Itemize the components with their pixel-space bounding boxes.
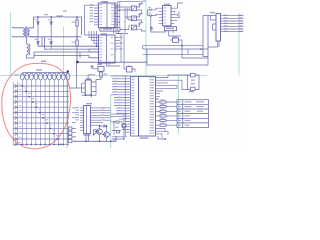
keyboard top rail junction xyxy=(67,71,69,73)
small box left wire xyxy=(91,66,99,69)
opto bus top rail xyxy=(118,2,142,4)
header connector J1 box xyxy=(216,14,221,42)
opto B1 wires xyxy=(136,4,143,14)
U4 bottom wire xyxy=(82,94,96,96)
keyboard label top-left2 xyxy=(20,74,23,75)
small box below IC1b xyxy=(98,66,104,71)
guide line horizontal middle xyxy=(0,75,207,77)
diode D3 label xyxy=(35,39,38,40)
junction dots mid right xyxy=(181,45,182,46)
Q area wires xyxy=(100,124,111,141)
opto B3 wires xyxy=(136,23,146,31)
wire relay to right vertical xyxy=(182,49,208,58)
fuse label xyxy=(63,11,67,12)
crystal Y1 loop xyxy=(188,73,200,90)
resistor network labels xyxy=(161,99,165,123)
resistor R5 xyxy=(94,130,97,133)
AC terminal marks xyxy=(12,27,14,37)
guide line vertical keyboard right xyxy=(66,70,68,148)
mid right vertical stubs xyxy=(143,46,208,63)
resistor network rows to table xyxy=(156,102,178,125)
small box above MCU xyxy=(127,67,133,73)
wire net D xyxy=(34,56,99,58)
diode D2 label xyxy=(48,19,51,20)
keyboard row caps xyxy=(15,84,16,146)
long verticals to bottom right xyxy=(203,16,208,59)
GND label left xyxy=(41,61,46,63)
diode D3 xyxy=(37,37,39,46)
junction dots Q area xyxy=(99,125,100,126)
IC2 left pins xyxy=(159,8,163,23)
opto B3 label xyxy=(138,23,142,24)
diode D1 xyxy=(37,17,39,37)
Q3 emitter resistor xyxy=(116,131,119,133)
guide line vertical bottom right xyxy=(177,76,179,133)
fuse L1 xyxy=(57,16,63,17)
below IC2 label2 xyxy=(172,37,176,38)
transistor Q1 xyxy=(95,129,102,135)
IC2 U3 box xyxy=(163,6,172,26)
wires below regulator xyxy=(120,25,129,30)
Ra label xyxy=(72,22,76,23)
cap C4 label xyxy=(148,13,151,14)
wire net A xyxy=(38,37,99,46)
J1 bottom wires xyxy=(208,41,219,47)
guide line vertical center xyxy=(145,1,147,76)
header label top right xyxy=(210,12,215,14)
wires caps to IC2 xyxy=(148,8,159,15)
opto bus verticals xyxy=(116,2,131,34)
keyboard label top xyxy=(36,69,42,70)
IC1b divider xyxy=(106,35,108,63)
diode D2 xyxy=(50,17,52,37)
opto B2 wires xyxy=(136,14,143,24)
Q3 labels xyxy=(119,119,123,120)
MCU U6 body xyxy=(139,77,156,137)
U5 right pin labels xyxy=(101,107,105,120)
keyboard diagonal tiny labels xyxy=(25,88,59,137)
table cell texts xyxy=(178,101,204,125)
U6 right pin wires upper xyxy=(156,78,171,100)
transistor Q2 xyxy=(102,132,109,138)
IC U5 box xyxy=(84,106,91,134)
box below IC2 label xyxy=(166,28,174,29)
cap C4 xyxy=(148,14,155,16)
IC1 left pins xyxy=(94,5,99,25)
IC1b label xyxy=(101,33,107,34)
GND label mid xyxy=(97,64,102,66)
keyboard label top-left xyxy=(15,74,19,75)
cap C3 xyxy=(148,9,155,11)
keyboard grid horizontals xyxy=(13,86,69,144)
transformer T1 xyxy=(13,17,39,38)
IC1 U1 box xyxy=(99,3,115,28)
IC2 right wires to connectors xyxy=(175,3,184,18)
resistor network boxes xyxy=(160,101,166,126)
IC1b right pin labels xyxy=(119,37,123,50)
IC1 left bus vertical xyxy=(85,5,99,35)
J1 right pin wires xyxy=(221,16,244,32)
J2 wires xyxy=(72,129,76,142)
IC1b junction dot xyxy=(96,46,97,47)
IC1b right pins xyxy=(115,38,120,50)
J1 wire top xyxy=(208,16,216,31)
R4 top link xyxy=(100,70,102,73)
wire from keypad to amp xyxy=(70,77,82,88)
U6 pin number texts inside strip xyxy=(132,77,135,134)
resistor R4 vertical xyxy=(100,72,103,77)
transistor Q3 xyxy=(122,124,126,128)
crystal labels xyxy=(191,80,195,81)
divider resistor Rb xyxy=(76,40,78,46)
lower right junctions xyxy=(165,138,166,139)
small box above MCU wires xyxy=(124,65,135,72)
choke coil L2 xyxy=(27,38,35,58)
IC1 label xyxy=(101,1,108,2)
U5 divider xyxy=(86,106,88,134)
relay K1 coil symbol xyxy=(170,40,182,46)
wire drop to gnd node xyxy=(77,52,80,62)
U5 label top xyxy=(86,103,92,104)
verticals from regulator area down xyxy=(116,34,124,70)
U6 pin name texts inside body right xyxy=(150,77,155,134)
keyboard row labels xyxy=(19,84,21,143)
top rail label xyxy=(44,14,48,15)
U4 top wire xyxy=(88,75,101,82)
U4 left pins xyxy=(82,83,86,93)
MCU U6 left wire stubs upper xyxy=(111,76,130,132)
bottom rail wire xyxy=(30,36,82,38)
opto B3 symbol xyxy=(132,26,135,29)
U5 right pins xyxy=(90,108,110,125)
Q3 base resistor xyxy=(116,121,119,123)
U6 bottom label xyxy=(140,137,149,139)
opto box B1 xyxy=(131,6,136,11)
Q3 junction dots xyxy=(113,121,114,122)
keyboard grid verticals xyxy=(13,80,68,146)
wire net C xyxy=(34,52,99,58)
wire net B xyxy=(45,37,99,49)
bottom bus wire xyxy=(74,136,116,141)
Rb label xyxy=(72,42,76,43)
diode D4 xyxy=(50,37,52,49)
box below IC2 xyxy=(165,27,177,31)
IC1 left pin labels xyxy=(90,4,94,22)
table block xyxy=(177,100,209,128)
IC2 right pins xyxy=(171,8,178,23)
left column caps of U5 xyxy=(72,108,76,123)
IC1 divider xyxy=(106,3,108,28)
Q3 wires xyxy=(111,114,127,141)
relay label xyxy=(173,36,178,37)
opto box B3 xyxy=(131,25,136,30)
cross wires mid right xyxy=(143,46,208,55)
MCU U6 inner strip xyxy=(131,77,139,137)
wires below IC2 box xyxy=(169,31,181,36)
opto box B2 xyxy=(131,16,136,21)
guide line vertical left xyxy=(10,12,12,76)
table title label xyxy=(189,91,194,93)
IC1b U1b box xyxy=(99,35,116,63)
crystal wires xyxy=(163,75,188,90)
IC2 left pin labels xyxy=(163,7,166,23)
junction top rail at divider xyxy=(76,16,77,17)
U4 right vertical xyxy=(91,82,96,98)
top rail wire xyxy=(34,17,82,35)
junction bottom rail at divider xyxy=(76,36,77,37)
U5 bottom wires xyxy=(86,134,89,142)
connector J2 small xyxy=(68,127,72,143)
J1 pin labels xyxy=(224,15,243,32)
IC1 below verticals xyxy=(114,28,119,34)
U5 left pins xyxy=(80,108,84,130)
divider wire xyxy=(76,17,78,62)
U4 right pins xyxy=(91,82,96,92)
IC1 inner pin number specks xyxy=(100,4,115,25)
IC1 top stub xyxy=(104,1,106,3)
opto left bus link xyxy=(116,33,128,35)
U4 label xyxy=(86,78,91,79)
guide line vertical right xyxy=(238,13,240,76)
U4 bottom junctions xyxy=(85,95,86,96)
junction node black xyxy=(76,61,78,63)
keyboard diagonal key dots xyxy=(22,85,62,145)
diode D1 label xyxy=(35,19,38,20)
keyboard bottom dots xyxy=(22,144,64,145)
left drop vertical xyxy=(151,16,166,33)
opto top rail label xyxy=(143,0,147,1)
long vertical wire left of U6 xyxy=(124,76,126,136)
guide line vertical mid-left xyxy=(63,27,65,76)
junction on top rail xyxy=(51,16,52,17)
guide line vertical bottom mid xyxy=(110,95,112,148)
bottom bus junctions xyxy=(85,141,86,142)
R4 label xyxy=(103,74,107,75)
IC1b inner pin specks xyxy=(100,37,114,61)
relay K1 box xyxy=(173,38,179,42)
cap C3 label xyxy=(148,7,151,8)
IC1b bottom wire xyxy=(107,63,121,66)
opto B1 symbol xyxy=(132,7,135,10)
keyboard top rail xyxy=(22,72,68,74)
cap C5 xyxy=(150,26,153,30)
op-amp U4 box xyxy=(85,80,91,95)
red annotation ellipse xyxy=(2,63,71,148)
IC1b left bus verticals xyxy=(89,31,99,52)
regulator label xyxy=(103,28,112,29)
U5 label bottom xyxy=(84,135,91,136)
wire lower mid horizontal xyxy=(147,58,208,65)
opto B2 symbol xyxy=(132,17,135,20)
regulator flat box U2 xyxy=(100,28,120,32)
U6 right lower wires xyxy=(156,129,169,140)
divider resistor Ra xyxy=(76,20,78,26)
U5 left pin labels xyxy=(76,107,80,120)
IC1 right pins xyxy=(115,5,120,25)
IC2 label xyxy=(164,4,170,5)
opto B1 label xyxy=(138,4,142,5)
opto B2 label xyxy=(138,14,142,15)
keyboard column coils xyxy=(20,73,69,80)
wire from node to right xyxy=(77,62,148,77)
diode D4 label xyxy=(48,39,51,40)
U6 left labels xyxy=(113,75,122,113)
